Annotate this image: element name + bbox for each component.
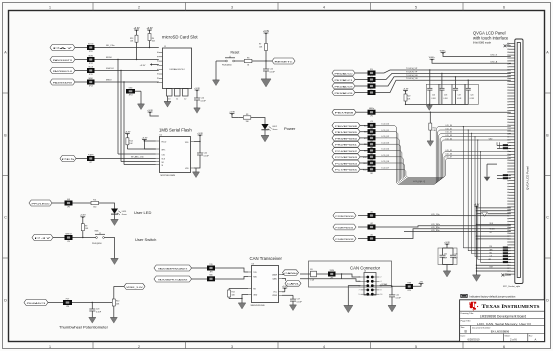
wire [428, 104, 430, 105]
svg-text:C19: C19 [458, 94, 461, 96]
wire [95, 81, 159, 83]
wire [477, 270, 511, 272]
svg-text:R19: R19 [364, 150, 367, 152]
svg-text:C23: C23 [96, 308, 99, 310]
jumper (LCD D1) [368, 127, 376, 137]
capacitor C34 0.1UF [450, 248, 456, 265]
power +5V [419, 281, 424, 285]
svg-text:C22: C22 [204, 152, 207, 154]
wire [136, 48, 138, 60]
node PF0/LED0 [29, 200, 52, 206]
svg-text:3: 3 [231, 345, 233, 349]
wire [105, 238, 115, 259]
svg-text:PC7/EPI0S5: PC7/EPI0S5 [335, 170, 357, 172]
node PJ7 [32, 235, 54, 241]
svg-text:10: 10 [168, 98, 170, 100]
svg-text:JP11: JP11 [89, 51, 93, 53]
svg-text:PE3/ADC8: PE3/ADC8 [335, 92, 355, 95]
wire [376, 77, 511, 86]
IC U3 CAN transceiver [248, 264, 282, 307]
jumper JP13 (GND) [126, 87, 135, 96]
svg-text:+VCAN: +VCAN [380, 283, 388, 286]
jumper JP9 (TERM) [328, 270, 336, 280]
node PA5/SSI0TX [50, 57, 75, 63]
svg-text:R13: R13 [130, 38, 133, 40]
LED LED1 Green (User LED) [111, 209, 127, 217]
svg-text:C30: C30 [444, 253, 447, 255]
svg-text:R6: R6 [247, 57, 249, 59]
wire [355, 85, 368, 87]
ground (under card slot) [164, 102, 171, 108]
svg-text:TOUCH_YP: TOUCH_YP [406, 71, 418, 73]
wire (data bus bend) [376, 137, 511, 182]
wire [52, 202, 65, 204]
svg-text:2 of 6: 2 of 6 [510, 338, 517, 342]
svg-text:CSn: CSn [162, 154, 165, 156]
wire [360, 143, 368, 145]
wire [360, 131, 368, 133]
wire junction [429, 69, 430, 70]
svg-text:R24: R24 [370, 69, 373, 71]
jumper 0R (lower 2) [503, 252, 508, 254]
wire junction [430, 112, 431, 113]
svg-text:J1: J1 [164, 46, 166, 48]
svg-text:0.1UF: 0.1UF [457, 98, 461, 100]
node PC7/EPI0S5 [332, 166, 360, 172]
capacitor C15 0.1UF [263, 61, 276, 79]
svg-text:LED1: LED1 [122, 211, 127, 213]
jumper 0R (data row) [503, 147, 508, 149]
svg-text:0.1UF: 0.1UF [270, 71, 276, 73]
svg-text:R9: R9 [85, 225, 87, 227]
wire [508, 178, 510, 180]
wire [144, 140, 155, 142]
svg-text:R112: R112 [363, 169, 367, 171]
svg-text:4: 4 [323, 345, 325, 349]
wire [95, 158, 156, 160]
svg-text:U2: U2 [160, 135, 162, 137]
svg-text:R22: R22 [407, 96, 410, 98]
svg-text:TOUCH_XP: TOUCH_XP [406, 68, 418, 70]
svg-text:J6: J6 [364, 271, 366, 273]
svg-text:R16: R16 [364, 132, 367, 134]
svg-text:1MB Serial Flash: 1MB Serial Flash [159, 128, 192, 133]
svg-text:R111: R111 [363, 163, 367, 165]
svg-text:JP3: JP3 [210, 272, 213, 274]
svg-text:LCD_D0: LCD_D0 [446, 125, 453, 127]
ground [111, 220, 119, 226]
jumper JP3 (TXD) [207, 264, 215, 274]
node CANL [285, 281, 301, 287]
ground [138, 104, 145, 110]
wire [446, 244, 448, 248]
wire [95, 47, 159, 49]
svg-text:R21: R21 [433, 127, 436, 129]
capacitor C23 0.1UF [89, 303, 102, 318]
svg-text:3: 3 [231, 6, 233, 10]
jumper (LCD_RDn) [368, 234, 376, 241]
svg-text:+3.3V: +3.3V [140, 65, 146, 67]
wire [140, 91, 142, 104]
svg-text:Indicates factory-default jump: Indicates factory-default jumper positio… [470, 294, 516, 298]
power VLED+ [429, 57, 436, 61]
node PB7/NMI [332, 109, 356, 115]
no-connect pin 1 [501, 274, 510, 277]
node VREF_3.0V [124, 283, 145, 289]
svg-text:0.1UF: 0.1UF [204, 155, 210, 157]
resistor R13 10K [135, 30, 138, 48]
node PE2/ADC9 [332, 83, 355, 89]
resistor R3 330 [238, 114, 256, 123]
svg-text:LED_K: LED_K [491, 55, 498, 57]
svg-text:12: 12 [184, 98, 186, 100]
wire [376, 226, 511, 227]
resistor R14 10K [126, 134, 129, 150]
svg-text:C21: C21 [396, 294, 399, 296]
svg-text:FPC_Socket_style: FPC_Socket_style [503, 285, 521, 288]
wire [477, 235, 511, 237]
svg-text:JP2: JP2 [370, 116, 373, 118]
svg-text:LCD_D3: LCD_D3 [446, 135, 453, 137]
svg-text:CAN Transceiver: CAN Transceiver [250, 256, 283, 261]
wire [360, 156, 368, 158]
wire [215, 61, 217, 80]
svg-text:0.1UF: 0.1UF [470, 98, 474, 100]
wire [360, 124, 368, 126]
wire [150, 112, 159, 116]
power +3.3V [229, 111, 235, 115]
svg-text:0.1UF: 0.1UF [96, 311, 102, 313]
jumper 0R (lower 1) [503, 249, 508, 251]
jumper (LCD_CSn) [368, 211, 376, 218]
svg-text:HOLD: HOLD [162, 142, 167, 144]
wire [477, 224, 511, 226]
wire junction [474, 136, 475, 137]
svg-text:C: C [546, 215, 549, 219]
wire [95, 59, 159, 61]
wire [477, 267, 511, 269]
svg-text:PA2/SSI0CLK: PA2/SSI0CLK [53, 70, 74, 73]
svg-text:LCD: LCD [370, 134, 373, 136]
jumper (LCD D7) [368, 165, 376, 175]
svg-text:VDDIO: VDDIO [490, 229, 496, 231]
node PC6/EPI0S4 [332, 160, 360, 166]
node PA7 [50, 45, 77, 51]
wire [355, 79, 368, 81]
jumper (touch 4) [368, 88, 376, 95]
svg-text:PE0/EPI0S8: PE0/EPI0S8 [335, 126, 357, 128]
svg-text:+3.3V: +3.3V [229, 111, 235, 113]
svg-text:PF0/LED0: PF0/LED0 [32, 203, 52, 205]
jumper JP7 (FLASH) [87, 153, 95, 164]
wire junction [123, 81, 124, 82]
power +3.3V [142, 137, 148, 141]
wire [282, 279, 286, 281]
wire [229, 298, 242, 300]
svg-text:PC6/EPI0S4: PC6/EPI0S4 [335, 163, 357, 165]
svg-text:C: C [4, 215, 7, 219]
svg-text:R4: R4 [152, 38, 154, 40]
svg-text:EK-LM3S9B96: EK-LM3S9B96 [491, 329, 510, 333]
svg-text:8-bit 8080 mode: 8-bit 8080 mode [473, 42, 492, 45]
power +3.3V [146, 28, 153, 32]
power +3.3V [263, 31, 270, 35]
svg-text:LCD: LCD [370, 159, 373, 161]
svg-text:microSD Card Slot: microSD Card Slot [162, 35, 198, 40]
svg-text:11: 11 [176, 98, 178, 100]
wire junction [468, 129, 469, 130]
wire [123, 82, 125, 165]
wire [76, 158, 87, 160]
svg-text:WPn: WPn [162, 149, 166, 151]
power VLED+ [440, 50, 447, 54]
svg-text:+3.3V: +3.3V [133, 28, 140, 30]
wire [114, 214, 116, 219]
svg-text:LCD: LCD [370, 127, 373, 129]
svg-text:JP13: JP13 [129, 95, 133, 97]
capacitor box outline [438, 248, 457, 265]
svg-text:5: 5 [415, 6, 417, 10]
svg-text:PB-SQ8050: PB-SQ8050 [222, 65, 232, 67]
resistor R6 33 [234, 57, 262, 66]
header J6 CAN connector [359, 271, 383, 296]
wire [75, 81, 87, 83]
wire (flash bus) [124, 164, 156, 166]
wire [508, 247, 510, 249]
svg-text:LCD: LCD [370, 165, 373, 167]
wire [477, 210, 511, 212]
wire [75, 47, 87, 49]
wire [376, 215, 511, 217]
svg-text:User LED: User LED [134, 210, 151, 215]
svg-text:RESETn: RESETn [275, 61, 295, 63]
wire [376, 111, 511, 113]
node PA6/USB0EPEN/CAN0TX [154, 265, 192, 271]
svg-text:PC5/EPI0S3: PC5/EPI0S3 [335, 157, 357, 159]
capacitor C21 0.1UF [389, 286, 402, 305]
wire [376, 73, 511, 79]
svg-text:+3.3V: +3.3V [147, 110, 153, 112]
svg-text:PE6/ADC0: PE6/ADC0 [335, 72, 355, 75]
power +3.3V [197, 133, 203, 137]
wire junction [92, 302, 93, 303]
wire junction [476, 267, 477, 268]
ground [427, 141, 434, 146]
wire [262, 60, 272, 62]
wire [376, 229, 511, 239]
capacitor C16 0.1UF (DNP box) [426, 84, 440, 104]
svg-text:0.1UF: 0.1UF [297, 302, 303, 304]
svg-text:C18: C18 [444, 94, 447, 96]
svg-text:CANH: CANH [284, 272, 298, 275]
svg-text:R18: R18 [364, 144, 367, 146]
wire [477, 247, 511, 249]
wire (data to lower pin) [478, 140, 503, 259]
wire [355, 72, 368, 74]
wire [284, 288, 286, 292]
wire (data to lower pin) [463, 127, 502, 248]
svg-text:+3.3V: +3.3V [194, 88, 200, 90]
jumper 0R (lower 3) [503, 255, 508, 257]
svg-text:LCD: LCD [370, 146, 373, 148]
ground [238, 303, 246, 309]
wire [215, 268, 248, 272]
svg-text:Document Number:: Document Number: [472, 326, 491, 329]
wire junction [341, 273, 342, 274]
connector J1 microSD card slot [157, 46, 191, 89]
wire [360, 168, 368, 170]
title block frame [460, 300, 545, 342]
jumper (LCD D4) [368, 146, 376, 156]
svg-text:VLED+: VLED+ [440, 50, 447, 52]
svg-text:PH3/EPI0S0: PH3/EPI0S0 [335, 138, 357, 140]
svg-text:33: 33 [247, 65, 249, 67]
svg-text:Date:: Date: [461, 335, 466, 338]
svg-text:R11: R11 [93, 199, 96, 201]
svg-text:LED_A: LED_A [491, 60, 498, 63]
switch SW5 (user button) [92, 231, 105, 245]
svg-text:PE2/ADC9: PE2/ADC9 [335, 85, 355, 88]
svg-text:330: 330 [246, 121, 249, 123]
wire [113, 286, 115, 296]
ground [110, 318, 117, 324]
wire [508, 148, 510, 150]
jumper JP6 (SWITCH) [65, 233, 73, 243]
svg-text:DM1AA-SF-PEJ: DM1AA-SF-PEJ [169, 68, 184, 71]
svg-text:LCD_D[0..7]: LCD_D[0..7] [413, 181, 425, 183]
jumper JP4 (RXD) [207, 275, 215, 282]
svg-text:PJ3/EPI0S31: PJ3/EPI0S31 [336, 227, 354, 229]
wire junction [391, 286, 392, 287]
jumper 0R (lower 0) [503, 247, 508, 249]
wire (cap ground bus) [406, 103, 469, 105]
wire [477, 264, 511, 266]
wire junction [476, 207, 477, 208]
node RESETn [272, 58, 295, 64]
power +3.3V [194, 88, 200, 92]
svg-text:JP7: JP7 [89, 162, 92, 164]
wire junction [265, 60, 266, 61]
jumper (LCD backlight) [368, 108, 376, 118]
wire [144, 141, 155, 149]
node PC4/EPI0S2 [332, 148, 360, 154]
svg-text:CANL: CANL [272, 277, 277, 280]
svg-text:PH2/EPI0S1: PH2/EPI0S1 [335, 145, 357, 147]
LED LED2 Green (Power) [261, 124, 277, 131]
svg-text:CAN Connector: CAN Connector [350, 265, 381, 270]
svg-text:C14: C14 [201, 97, 204, 99]
svg-text:R26: R26 [370, 82, 373, 84]
wire junction [468, 80, 469, 81]
node CANH [283, 270, 299, 276]
svg-text:R25: R25 [370, 75, 373, 77]
ground [261, 79, 271, 87]
ground (mid arrow) [484, 177, 491, 181]
jumper JP12 (MOSI) [87, 55, 95, 65]
svg-text:6: 6 [503, 345, 505, 349]
svg-text:LCD_D4: LCD_D4 [446, 138, 453, 140]
node PE6/ADC0 [332, 70, 355, 76]
jumper JP10 (PWR) [406, 282, 414, 292]
wire [195, 168, 197, 172]
node PE3/ADC8 [332, 90, 355, 96]
wire [256, 118, 265, 125]
svg-text:RST: RST [490, 267, 493, 269]
wire (data to lower pin) [475, 137, 503, 257]
node PA7/USB0PFLT/CAN0RX [154, 276, 192, 282]
jumper (LCD D3) [368, 140, 376, 150]
wire [264, 130, 266, 136]
IC U2 serial flash [156, 135, 194, 177]
wire junction [199, 141, 200, 142]
wire [232, 114, 238, 118]
svg-text:SD_CSn: SD_CSn [106, 45, 115, 47]
power +3.3V [444, 242, 450, 246]
svg-text:U3: U3 [252, 264, 254, 266]
wire [477, 238, 511, 240]
capacitor C19 0.1UF (DNP box) [452, 84, 466, 104]
wire [477, 207, 511, 209]
svg-text:QVGA LCD Panel: QVGA LCD Panel [526, 166, 530, 190]
svg-text:C20: C20 [470, 94, 473, 96]
wire [192, 278, 208, 280]
svg-text:PE1/EPI0S9: PE1/EPI0S9 [335, 132, 357, 134]
wire [282, 273, 284, 275]
svg-text:PB-SQ8050: PB-SQ8050 [92, 243, 102, 245]
wire [508, 145, 510, 147]
wire junction [476, 238, 477, 239]
ground [261, 136, 269, 142]
svg-text:JP8: JP8 [66, 306, 69, 308]
wire junction [476, 270, 477, 271]
potentiometer R10 10K [112, 297, 115, 309]
CAN connector outline box [309, 261, 392, 287]
svg-text:POT: POT [66, 298, 69, 300]
wire (data bus bend) [376, 140, 511, 181]
svg-text:10: 10 [381, 294, 383, 296]
svg-text:MOSI: MOSI [106, 57, 112, 59]
wire [282, 291, 285, 293]
svg-text:C16: C16 [432, 94, 435, 96]
svg-text:+3.3V: +3.3V [197, 133, 203, 135]
svg-text:C17: C17 [297, 299, 300, 301]
wire (flash bus) [121, 161, 156, 163]
wire [497, 148, 503, 150]
wire [455, 77, 457, 89]
resistor R22 10K [404, 91, 407, 105]
ground (LCD vss) [473, 275, 481, 281]
wire junction [117, 59, 118, 60]
wire [216, 60, 226, 62]
wire (data bus bend) [376, 155, 511, 178]
svg-text:PA7/USB0PFLT/CAN0RX: PA7/USB0PFLT/CAN0RX [158, 278, 188, 281]
svg-text:LM3S9B96 Development Board: LM3S9B96 Development Board [480, 314, 527, 318]
jumper 0R (data row) [503, 174, 508, 176]
wire [508, 258, 510, 260]
ground [443, 271, 451, 277]
wire (data to lower pin) [468, 130, 503, 251]
wire junction [429, 104, 430, 105]
ground (CAN shield) [344, 306, 353, 313]
wire (data bus bend) [376, 158, 511, 177]
svg-text:6/28/2010: 6/28/2010 [468, 337, 480, 341]
wire [167, 96, 169, 102]
svg-text:+3.3V: +3.3V [444, 242, 450, 244]
svg-text:JP15: JP15 [89, 74, 93, 76]
svg-text:LCD_D2: LCD_D2 [446, 132, 453, 134]
svg-text:5: 5 [415, 345, 417, 349]
wire (CANL) [300, 279, 361, 282]
